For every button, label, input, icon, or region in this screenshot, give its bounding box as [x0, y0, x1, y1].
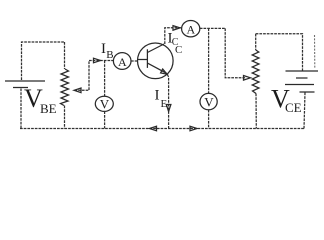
current arrow on bottom rail (right, pointing right) — [190, 126, 197, 131]
stray scan mark (page edge) — [314, 35, 316, 69]
svg-text:B: B — [106, 49, 113, 61]
voltmeter V2 (V_CE meter) — [200, 28, 217, 128]
wire: left loop top rail — [22, 42, 65, 80]
voltmeter V1 (V_BE meter) — [95, 61, 113, 129]
transistor Q1 (NPN) — [138, 43, 174, 79]
battery V_CE (B2, two cells) — [285, 71, 318, 129]
wire: collector up to top rail with I_C arrow — [165, 26, 182, 44]
svg-text:A: A — [118, 55, 127, 69]
svg-text:I: I — [101, 41, 106, 57]
svg-text:V: V — [204, 95, 214, 110]
wire: right loop top rail — [256, 34, 303, 71]
wire: A1 to transistor base — [131, 60, 138, 62]
label C (collector) — [175, 44, 182, 56]
battery V_BE (B1) — [5, 81, 45, 129]
current arrow on bottom rail (left, pointing left) — [150, 126, 157, 131]
label I_B — [101, 41, 114, 61]
label V_CE — [271, 85, 302, 115]
wiper arrow of R1 — [74, 61, 89, 93]
label V_BE — [24, 84, 57, 116]
ammeter A1 — [113, 53, 131, 70]
rheostat R1 — [61, 42, 69, 129]
label I_E — [155, 87, 168, 110]
wire: base wire with I_B current arrow — [89, 58, 114, 63]
svg-text:BE: BE — [40, 101, 57, 116]
rheostat R2 — [252, 34, 259, 129]
svg-text:CE: CE — [285, 100, 302, 115]
ammeter A2 — [182, 21, 200, 37]
svg-text:E: E — [161, 98, 168, 110]
wire: A2 to right drop — [200, 27, 225, 29]
svg-text:C: C — [172, 37, 179, 48]
wire: emitter lead down with I_E arrow — [166, 75, 171, 129]
svg-text:A: A — [187, 23, 196, 37]
svg-text:I: I — [155, 87, 160, 103]
wire: drop to R2 wiper with arrow — [225, 28, 250, 80]
label I_C — [168, 30, 179, 48]
svg-text:V: V — [100, 97, 110, 112]
wire: bottom rail — [20, 128, 304, 130]
